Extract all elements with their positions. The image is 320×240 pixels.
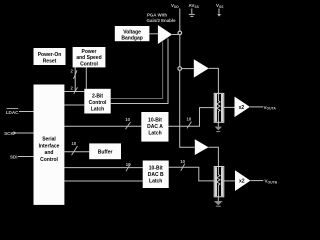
svg-text:Bandgap: Bandgap xyxy=(121,36,142,42)
svg-text:Reset: Reset xyxy=(43,58,57,64)
svg-text:SDI: SDI xyxy=(10,155,18,160)
svg-text:Power: Power xyxy=(81,49,96,55)
svg-text:10: 10 xyxy=(187,116,192,121)
svg-text:Buffer: Buffer xyxy=(98,150,113,156)
svg-text:x2: x2 xyxy=(239,179,245,185)
svg-text:10: 10 xyxy=(125,117,130,122)
svg-text:10: 10 xyxy=(180,159,185,164)
svg-text:and: and xyxy=(45,150,54,156)
svg-text:Interface: Interface xyxy=(39,143,60,149)
svg-text:DAC B: DAC B xyxy=(148,172,164,178)
svg-text:PGA With: PGA With xyxy=(147,13,167,18)
svg-text:Power-On: Power-On xyxy=(38,52,62,58)
svg-text:SCK: SCK xyxy=(4,131,14,136)
svg-text:Serial: Serial xyxy=(42,137,56,143)
svg-text:LDAC: LDAC xyxy=(6,110,19,115)
svg-text:DAC A: DAC A xyxy=(147,124,163,130)
svg-text:10-Bit: 10-Bit xyxy=(149,166,163,172)
svg-text:Latch: Latch xyxy=(91,107,104,113)
svg-text:and Speed: and Speed xyxy=(76,55,101,61)
svg-text:Control: Control xyxy=(80,61,98,67)
svg-text:Control: Control xyxy=(40,157,58,163)
svg-text:Control: Control xyxy=(89,100,107,106)
svg-text:Latch: Latch xyxy=(149,179,162,185)
svg-text:10: 10 xyxy=(126,162,131,167)
svg-text:10: 10 xyxy=(72,141,77,146)
svg-text:Latch: Latch xyxy=(148,130,161,136)
svg-text:2-Bit: 2-Bit xyxy=(92,94,103,100)
svg-text:x2: x2 xyxy=(239,105,245,111)
svg-text:Gain/2 Enable: Gain/2 Enable xyxy=(146,18,176,23)
svg-text:Voltage: Voltage xyxy=(123,29,141,35)
svg-text:10-Bit: 10-Bit xyxy=(148,117,162,123)
